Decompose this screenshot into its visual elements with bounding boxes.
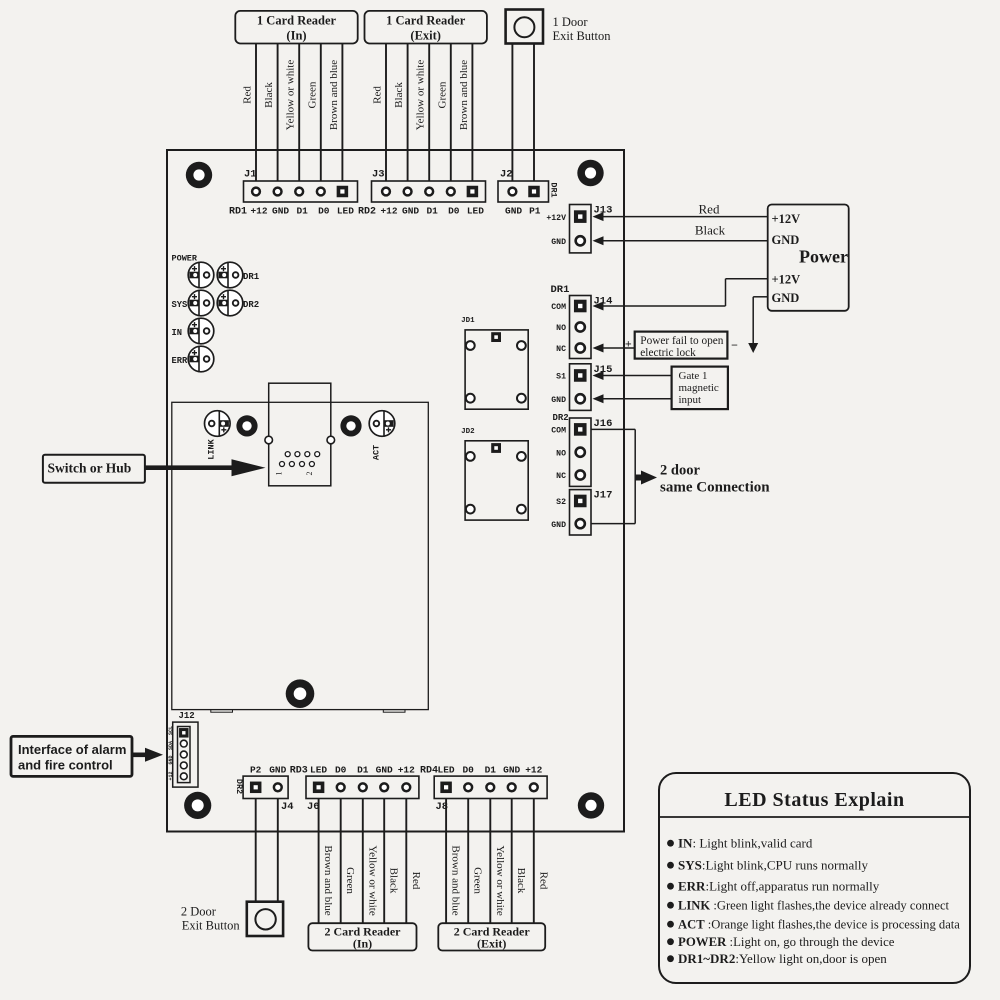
svg-text:2 Door: 2 Door: [181, 905, 217, 919]
svg-text:POWER: POWER: [172, 254, 198, 264]
svg-text:ERR: ERR: [172, 356, 189, 366]
svg-text:JD1: JD1: [461, 317, 475, 325]
svg-text:GND: GND: [551, 521, 566, 530]
svg-text:−: −: [731, 338, 738, 352]
svg-text:DR1: DR1: [551, 284, 570, 296]
svg-text:1 Card Reader: 1 Card Reader: [257, 14, 337, 28]
svg-text:IN: IN: [172, 328, 183, 338]
svg-text:SYS:Light blink,CPU runs norma: SYS:Light blink,CPU runs normally: [678, 858, 868, 873]
svg-text:+12V: +12V: [772, 273, 801, 287]
svg-text:ACT :Orange light flashes,the: ACT :Orange light flashes,the device is …: [678, 918, 960, 932]
svg-text:RD3: RD3: [290, 766, 308, 777]
svg-text:Interface of alarm: Interface of alarm: [18, 742, 126, 757]
svg-text:Yellow or white: Yellow or white: [415, 60, 427, 131]
svg-text:Yellow or white: Yellow or white: [366, 845, 378, 916]
svg-text:Black: Black: [393, 82, 405, 108]
svg-text:DR1~DR2:Yellow light on,door i: DR1~DR2:Yellow light on,door is open: [678, 951, 887, 966]
svg-text:D1: D1: [426, 206, 438, 217]
svg-text:J1: J1: [244, 169, 257, 181]
svg-text:+: +: [625, 337, 632, 351]
svg-text:Power fail to open: Power fail to open: [640, 335, 723, 347]
svg-text:Power: Power: [799, 247, 848, 267]
svg-text:+12: +12: [525, 765, 542, 776]
svg-text:J16: J16: [594, 418, 613, 430]
svg-text:GND: GND: [269, 765, 286, 776]
svg-text:1 Door: 1 Door: [553, 15, 589, 29]
svg-text:NO: NO: [556, 449, 566, 458]
svg-text:LED: LED: [467, 206, 484, 217]
svg-text:SYS: SYS: [172, 300, 188, 310]
svg-text:Black: Black: [515, 868, 527, 894]
svg-text:Green: Green: [344, 867, 356, 894]
svg-text:and fire control: and fire control: [18, 758, 113, 773]
svg-text:DR1: DR1: [243, 272, 260, 282]
svg-text:Brown and blue: Brown and blue: [322, 845, 334, 915]
svg-text:P1: P1: [529, 206, 541, 217]
svg-text:same Connection: same Connection: [660, 480, 770, 496]
svg-text:GND: GND: [551, 238, 566, 247]
svg-text:Black: Black: [263, 82, 275, 108]
svg-text:GND: GND: [272, 206, 289, 217]
svg-text:DR1: DR1: [549, 182, 559, 197]
svg-text:LINK :Green light flashes,the: LINK :Green light flashes,the device alr…: [678, 899, 950, 913]
svg-text:GND: GND: [505, 206, 522, 217]
svg-text:D0: D0: [448, 206, 460, 217]
svg-text:D1: D1: [296, 206, 308, 217]
svg-text:J17: J17: [594, 490, 613, 502]
svg-text:Green: Green: [472, 867, 484, 894]
svg-text:DR2: DR2: [243, 300, 259, 310]
svg-text:ERR:Light off,apparatus run no: ERR:Light off,apparatus run normally: [678, 879, 880, 894]
svg-text:POWER :Light on, go through th: POWER :Light on, go through the device: [678, 935, 895, 949]
svg-text:Red: Red: [372, 86, 384, 104]
svg-text:Red: Red: [410, 872, 422, 890]
svg-text:GND: GND: [168, 755, 174, 764]
svg-text:JD2: JD2: [461, 428, 475, 436]
svg-text:Yellow or white: Yellow or white: [285, 60, 297, 131]
svg-text:+12V: +12V: [772, 212, 801, 226]
svg-text:Switch or Hub: Switch or Hub: [48, 461, 132, 476]
svg-text:electric lock: electric lock: [640, 347, 696, 359]
svg-text:+12: +12: [168, 771, 174, 780]
svg-text:Red: Red: [242, 86, 254, 104]
svg-text:Red: Red: [537, 872, 549, 890]
svg-text:GND: GND: [503, 765, 520, 776]
svg-text:SDA: SDA: [168, 741, 174, 750]
svg-text:Brown and blue: Brown and blue: [458, 60, 470, 130]
svg-text:Exit Button: Exit Button: [182, 919, 241, 933]
svg-text:Yellow or white: Yellow or white: [494, 845, 506, 916]
svg-text:(In): (In): [286, 29, 306, 43]
svg-text:SCL: SCL: [168, 726, 174, 735]
svg-text:input: input: [679, 394, 702, 406]
svg-text:Black: Black: [695, 223, 726, 238]
svg-text:1 Card Reader: 1 Card Reader: [386, 14, 466, 28]
svg-text:Brown and blue: Brown and blue: [328, 60, 340, 130]
svg-text:LED Status Explain: LED Status Explain: [724, 789, 904, 811]
svg-text:NO: NO: [556, 324, 566, 333]
svg-text:DR2: DR2: [553, 413, 569, 423]
svg-text:GND: GND: [772, 233, 800, 247]
svg-text:Green: Green: [306, 81, 318, 108]
svg-text:J3: J3: [372, 169, 385, 181]
svg-text:ACT: ACT: [372, 445, 382, 460]
svg-text:+12V: +12V: [546, 214, 566, 223]
svg-text:Exit Button: Exit Button: [553, 29, 612, 43]
svg-text:+12: +12: [380, 206, 397, 217]
svg-text:GND: GND: [376, 765, 393, 776]
svg-text:GND: GND: [772, 291, 800, 305]
svg-text:Green: Green: [436, 81, 448, 108]
svg-text:J12: J12: [179, 711, 195, 721]
svg-text:NC: NC: [556, 472, 566, 481]
svg-text:RD2: RD2: [358, 207, 376, 218]
svg-text:D1: D1: [357, 765, 369, 776]
svg-text:+12: +12: [398, 765, 415, 776]
svg-text:D1: D1: [485, 765, 497, 776]
svg-text:(Exit): (Exit): [477, 937, 506, 951]
svg-text:1: 1: [275, 472, 284, 476]
svg-text:NC: NC: [556, 345, 566, 354]
svg-text:D0: D0: [318, 206, 330, 217]
svg-text:LINK: LINK: [207, 438, 217, 459]
svg-text:(In): (In): [353, 937, 372, 951]
svg-text:D0: D0: [462, 765, 474, 776]
svg-text:J2: J2: [500, 169, 513, 181]
svg-text:LED: LED: [337, 206, 354, 217]
svg-text:RD1: RD1: [229, 207, 247, 218]
svg-text:(Exit): (Exit): [410, 29, 441, 43]
svg-text:Red: Red: [699, 202, 720, 217]
svg-text:Gate 1: Gate 1: [679, 370, 708, 382]
svg-text:COM: COM: [551, 427, 566, 436]
svg-text:magnetic: magnetic: [679, 382, 719, 394]
svg-text:Brown and blue: Brown and blue: [450, 845, 462, 915]
svg-text:Black: Black: [388, 868, 400, 894]
svg-text:2: 2: [305, 472, 314, 476]
svg-text:LED: LED: [438, 765, 455, 776]
svg-text:LED: LED: [310, 765, 327, 776]
svg-text:J4: J4: [281, 801, 294, 813]
svg-text:2 door: 2 door: [660, 463, 700, 479]
svg-text:D0: D0: [335, 765, 347, 776]
svg-text:IN: Light blink,valid card: IN: Light blink,valid card: [678, 836, 813, 851]
svg-text:S1: S1: [556, 373, 566, 382]
svg-text:GND: GND: [551, 396, 566, 405]
svg-text:P2: P2: [250, 765, 262, 776]
svg-text:S2: S2: [556, 498, 566, 507]
svg-text:DR2: DR2: [234, 779, 244, 794]
svg-text:COM: COM: [551, 303, 566, 312]
svg-text:RD4: RD4: [420, 766, 438, 777]
svg-text:+12: +12: [250, 206, 267, 217]
svg-text:GND: GND: [402, 206, 419, 217]
